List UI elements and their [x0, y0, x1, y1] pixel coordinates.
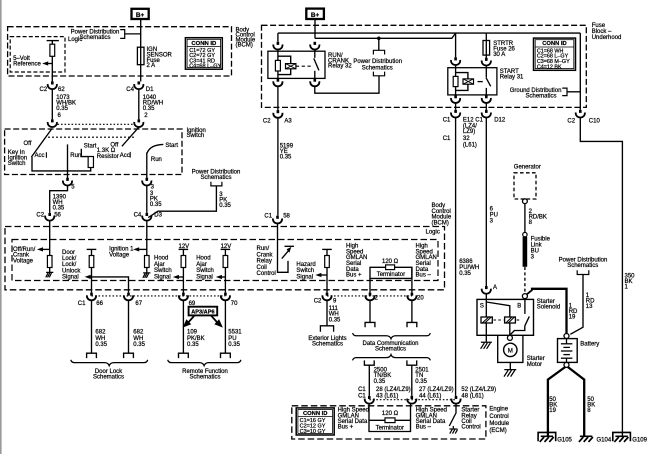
arrow AP3/AP6 to wire 70 — [214, 319, 223, 327]
svg-text:Reference: Reference — [13, 62, 41, 68]
svg-text:C2: C2 — [314, 298, 322, 304]
BCM upper dashed box — [8, 27, 232, 76]
svg-text:E12 C1: E12 C1 — [463, 117, 484, 123]
svg-text:C2: C2 — [567, 118, 575, 124]
relay coil run/crank — [277, 50, 279, 61]
svg-text:Power Distribution: Power Distribution — [353, 59, 402, 65]
svg-text:Switch: Switch — [196, 268, 214, 274]
solenoid switch output to motor junction — [511, 326, 525, 335]
svg-text:D3: D3 — [154, 213, 162, 219]
svg-text:B: B — [517, 304, 521, 310]
dotted connector link ECM row — [369, 399, 456, 401]
Logic lower dashed box — [12, 240, 438, 281]
ground G105 — [538, 432, 556, 441]
brace Remote Function Schematics — [168, 360, 241, 366]
scan edge artifact left — [0, 0, 2, 454]
svg-text:Signal: Signal — [196, 274, 213, 280]
wire resistor to ground — [49, 249, 51, 255]
wire pin 67 branch — [90, 277, 129, 293]
wire B+ to bus — [314, 19, 316, 38]
svg-text:43 (L61): 43 (L61) — [376, 393, 398, 399]
wire 5199 YE 0.35 — [277, 118, 279, 216]
terminal foot bus+ upper — [365, 322, 375, 327]
connector C2 pin 2 — [365, 293, 374, 301]
wire 682 WH 0.35 pin 66 — [91, 300, 93, 353]
connector C4 pin D1 — [134, 81, 143, 89]
ECM starter relay driver switch — [455, 404, 457, 414]
svg-text:C1: C1 — [78, 301, 86, 307]
svg-text:682: 682 — [133, 330, 144, 336]
svg-text:Terminator: Terminator — [377, 272, 405, 278]
arrow Ignition 1 Voltage — [133, 247, 139, 251]
wire C1 58 into logic — [277, 223, 279, 250]
brace data bus continues — [353, 355, 431, 361]
resistor 120 ohm ECM terminator — [385, 418, 395, 423]
energized coil symbol run/crank — [286, 64, 296, 69]
generator output terminal — [523, 199, 528, 204]
svg-text:70: 70 — [231, 301, 238, 307]
ground - ECM driver — [452, 426, 454, 429]
svg-text:19: 19 — [569, 314, 576, 320]
Logic inner dashed box — [10, 37, 65, 72]
svg-text:(ECM): (ECM) — [489, 428, 506, 434]
svg-text:(BCM): (BCM) — [236, 43, 253, 49]
wire 6 PU 3 to starter solenoid — [485, 118, 487, 286]
wire 350 BK 1 to G109 — [580, 118, 622, 437]
wire - resistor to C2 pin 62 — [51, 56, 53, 81]
arrow hood ajar signal right — [216, 275, 222, 279]
arrow AP3/AP6 to wire 69 — [183, 319, 192, 327]
svg-text:Run: Run — [151, 157, 162, 163]
svg-text:Schematics: Schematics — [200, 175, 231, 181]
ground - starter motor — [504, 370, 516, 377]
brace Data Communication Schematics — [353, 333, 431, 339]
relay switch start — [485, 66, 487, 78]
wire ECM bus+ to terminator — [368, 404, 370, 421]
pull-up cap pin 69 — [179, 248, 189, 250]
battery positive terminal — [564, 334, 569, 339]
solenoid coil 1 — [481, 317, 492, 323]
wire 682 WH 0.35 pin 67 — [128, 300, 130, 353]
dotted connector link C1 row — [92, 295, 226, 297]
svg-text:44 (L61): 44 (L61) — [419, 393, 441, 399]
svg-text:S: S — [480, 304, 484, 310]
svg-text:A3: A3 — [284, 118, 292, 124]
svg-text:A: A — [493, 285, 497, 291]
fuse IGN SENSOR 2 A — [137, 47, 144, 64]
svg-text:Signal: Signal — [154, 274, 171, 280]
arrow Off/Run/Crank Voltage — [37, 247, 43, 251]
svg-text:Bus +: Bus + — [346, 273, 362, 279]
brace Door Lock Schematics — [71, 360, 148, 366]
wire 3 PK 0.35 left — [146, 186, 148, 213]
svg-text:C1: C1 — [443, 117, 451, 123]
svg-text:0.35: 0.35 — [56, 106, 68, 112]
svg-text:Fuse: Fuse — [592, 23, 606, 29]
svg-text:Unlock: Unlock — [62, 268, 81, 274]
wire 50 BK 8 to G104 — [568, 367, 584, 436]
connector C1 pin 58 — [273, 216, 282, 224]
wire coil 2 to motor junction — [509, 323, 511, 335]
svg-text:G109: G109 — [632, 437, 647, 443]
bus line upper — [278, 32, 580, 34]
connector ignition switch pin 6 — [48, 119, 57, 127]
svg-text:Battery: Battery — [580, 341, 599, 347]
arrow 5-Volt Reference — [42, 61, 48, 65]
connector ignition switch pin 2 — [134, 119, 143, 127]
wire to BCM ignition 1 input — [146, 221, 148, 250]
resistor - 5 volt reference pull-up — [50, 44, 55, 56]
terminal foot bus- upper — [407, 322, 417, 327]
mechanical link dotted — [48, 136, 134, 138]
svg-text:Control: Control — [461, 425, 480, 431]
svg-text:0.35: 0.35 — [329, 318, 341, 324]
wire S branch to hold-in coil — [486, 302, 510, 317]
svg-text:0.35: 0.35 — [133, 342, 145, 348]
svg-text:Start: Start — [84, 144, 97, 150]
ground - BCM internal left — [46, 272, 54, 277]
svg-text:Lock/: Lock/ — [62, 262, 77, 268]
relay switch run/crank — [314, 50, 316, 58]
wire motor to ground — [509, 362, 511, 369]
ECM dashed box — [292, 406, 486, 439]
wire terminator to C2 pin 20 — [411, 267, 413, 292]
terminal foot pin 67 — [124, 353, 134, 358]
svg-text:Logic: Logic — [68, 37, 82, 43]
solenoid B contact stub — [524, 299, 526, 314]
svg-text:30 A: 30 A — [493, 52, 505, 58]
svg-text:C4=12 BK: C4=12 BK — [537, 64, 562, 70]
svg-text:C2: C2 — [263, 118, 271, 124]
svg-text:Block –: Block – — [592, 29, 612, 35]
terminal foot pin 66 — [87, 353, 97, 358]
svg-text:13: 13 — [586, 304, 593, 310]
svg-text:27 (LZ4/LZ9): 27 (LZ4/LZ9) — [419, 387, 454, 393]
terminal foot bus- lower — [407, 360, 417, 365]
svg-text:M: M — [508, 347, 513, 354]
wire 2501 TN 0.35 to ECM — [411, 365, 413, 396]
svg-text:20: 20 — [417, 296, 424, 302]
connector ECM C1 bus- — [407, 396, 416, 404]
ground G109 — [613, 432, 631, 441]
svg-text:C1: C1 — [443, 136, 451, 142]
battery negative terminal — [564, 362, 569, 367]
svg-text:Run: Run — [70, 153, 81, 159]
svg-text:Hood: Hood — [154, 256, 168, 262]
5-volt supply rail cap — [47, 40, 59, 42]
svg-text:Schematics: Schematics — [375, 347, 406, 353]
off-page bracket exterior lights — [320, 326, 333, 332]
svg-text:Coil: Coil — [257, 265, 267, 271]
wire start relay coil drop — [455, 33, 457, 57]
svg-text:LZ9): LZ9) — [463, 129, 475, 135]
connector starter solenoid pin A — [482, 286, 491, 294]
fusible link BU 3 — [523, 232, 527, 236]
wire to C2 pin 9 — [326, 268, 328, 293]
svg-text:0.35: 0.35 — [95, 342, 107, 348]
svg-text:Schematics: Schematics — [567, 263, 598, 269]
arrow hazard switch signal — [315, 273, 321, 277]
svg-text:AP3/AP6: AP3/AP6 — [191, 309, 214, 315]
svg-text:(BCM): (BCM) — [432, 220, 449, 226]
svg-text:PK/BK: PK/BK — [187, 336, 205, 342]
resistor pin 66 pull-up — [91, 249, 93, 255]
svg-text:C4: C4 — [134, 213, 142, 219]
off-page bracket power distribution (fuse block top) — [378, 38, 380, 50]
off-page bracket battery feed — [577, 270, 589, 274]
svg-text:120 Ω: 120 Ω — [382, 259, 399, 265]
svg-text:0.35: 0.35 — [228, 342, 240, 348]
wire 1390 WH 0.35 — [50, 186, 68, 213]
svg-text:19: 19 — [549, 408, 556, 414]
battery box — [558, 339, 578, 363]
svg-text:C1: C1 — [264, 213, 272, 219]
svg-text:Control: Control — [489, 414, 508, 420]
svg-text:Bus +: Bus + — [338, 425, 354, 431]
svg-text:Relay: Relay — [257, 259, 272, 265]
svg-text:56: 56 — [54, 213, 61, 219]
svg-text:Signal: Signal — [296, 274, 313, 280]
svg-text:(L61): (L61) — [463, 142, 477, 148]
wire coil to fuse block connector C1 — [455, 103, 457, 110]
svg-text:120 Ω: 120 Ω — [382, 411, 399, 417]
connector row C1 BCM bottom — [87, 293, 96, 301]
ground G104 — [580, 435, 592, 437]
connector start relay coil terminal top — [451, 57, 460, 65]
svg-text:Crank: Crank — [257, 252, 274, 258]
wire 2 RD/BK 8 — [524, 204, 526, 233]
svg-text:Bus –: Bus – — [416, 273, 432, 279]
svg-text:52 (LZ4/LZ9): 52 (LZ4/LZ9) — [461, 387, 496, 393]
wire to C1 pin 66 — [91, 268, 93, 293]
connector C2 pin A3 — [273, 110, 282, 118]
svg-text:CONN ID: CONN ID — [542, 41, 566, 47]
solenoid switch blade — [525, 316, 530, 326]
connector run/crank relay switch terminal top — [310, 42, 319, 50]
wire coil 1 to ground — [485, 323, 487, 342]
connector C2 pin 9 — [322, 293, 331, 301]
svg-text:Off: Off — [110, 143, 118, 149]
wire 109 PK/BK 0.35 pin 69 — [182, 300, 184, 353]
svg-text:Schematics: Schematics — [525, 94, 556, 100]
wire switch to fuse block connector D12 — [485, 103, 487, 110]
resistor pin 70 pull-up — [224, 249, 226, 255]
wire 5531 PU 0.35 pin 70 — [224, 300, 226, 353]
svg-text:D12: D12 — [494, 117, 506, 123]
svg-text:Module: Module — [489, 421, 509, 427]
wire 6386 PU/WH 0.35 to ECM — [455, 118, 457, 396]
contact Start pole 2 curve — [147, 144, 164, 153]
svg-text:Signal: Signal — [62, 275, 79, 281]
dotted connector link C2 row — [327, 295, 412, 297]
svg-text:C4: C4 — [126, 87, 134, 93]
svg-text:Relay 32: Relay 32 — [328, 64, 352, 70]
resistor pin 69 pull-up — [182, 249, 184, 255]
svg-text:0.35: 0.35 — [150, 202, 162, 208]
wire 50 BK 19 to G105 — [548, 367, 565, 436]
resistor 120 ohm BCM terminator — [386, 265, 395, 270]
mechanical link dashes solenoid — [494, 319, 504, 321]
battery cell plates — [566, 339, 568, 344]
svg-text:Bus –: Bus – — [416, 425, 432, 431]
svg-text:66: 66 — [96, 301, 103, 307]
wire 1 RD 13 — [570, 275, 583, 335]
connector C2 pin 56 — [45, 213, 54, 221]
svg-text:PU: PU — [228, 336, 236, 342]
B+ supply box (fuse block feed) — [306, 9, 324, 19]
connector pin D12 — [482, 110, 491, 118]
svg-text:58: 58 — [283, 213, 290, 219]
motor junction terminal — [507, 335, 512, 340]
svg-text:Schematics: Schematics — [362, 66, 393, 72]
svg-text:Logic: Logic — [426, 230, 440, 236]
svg-text:Control: Control — [257, 271, 276, 277]
coil parallel loop start — [456, 73, 468, 91]
connector ignition switch pin 5 — [63, 178, 72, 186]
svg-text:C4=68 L–GY: C4=68 L–GY — [189, 64, 221, 70]
wire C2 pin 20 to brace — [411, 300, 413, 322]
terminator box ECM — [369, 420, 411, 431]
svg-text:Relay 31: Relay 31 — [500, 74, 524, 80]
svg-text:C3=10 GY: C3=10 GY — [300, 429, 326, 435]
wire - rail to resistor — [51, 41, 53, 45]
svg-text:Resistor: Resistor — [97, 154, 119, 160]
wire to C1 pin 69 — [182, 268, 184, 293]
svg-text:CONN ID: CONN ID — [191, 41, 216, 47]
svg-text:48 (L61): 48 (L61) — [461, 393, 483, 399]
svg-text:Switch: Switch — [154, 268, 172, 274]
svg-text:28 (LZ4/LZ9): 28 (LZ4/LZ9) — [376, 387, 411, 393]
wire - B+ to IGN SENSOR fuse — [140, 19, 142, 47]
svg-text:0.35: 0.35 — [143, 106, 155, 112]
svg-text:Switch: Switch — [187, 133, 205, 139]
svg-text:Motor: Motor — [527, 362, 542, 368]
svg-text:67: 67 — [135, 301, 142, 307]
relay coil start — [455, 65, 457, 76]
terminal foot bus+ lower — [364, 360, 374, 365]
svg-text:Generator: Generator — [514, 164, 541, 170]
svg-text:Voltage: Voltage — [109, 252, 130, 258]
wire 111 WH 0.35 — [326, 300, 328, 325]
svg-text:C10: C10 — [589, 118, 601, 124]
connector start relay coil terminal bottom — [451, 95, 460, 103]
svg-text:Schematics: Schematics — [79, 35, 110, 41]
run/crank relay driver switch — [285, 245, 295, 247]
wire S terminal to pull-in coil — [485, 294, 487, 317]
connector run/crank relay coil terminal top — [277, 33, 279, 42]
svg-text:Switch: Switch — [296, 268, 314, 274]
svg-text:Schematics: Schematics — [93, 375, 124, 381]
connector ECM C1 starter relay coil control — [451, 396, 460, 404]
svg-text:62: 62 — [58, 87, 65, 93]
svg-text:Run/: Run/ — [257, 246, 270, 252]
svg-text:Ajar: Ajar — [154, 262, 165, 268]
CONN ID table (BCM) — [185, 38, 222, 69]
resistor hazard pull-up — [326, 249, 328, 255]
svg-text:C1: C1 — [358, 393, 366, 399]
svg-text:Hazard: Hazard — [296, 262, 315, 268]
svg-text:Underhood: Underhood — [592, 35, 622, 41]
wire fuse block to C2 C10 — [579, 33, 581, 110]
battery cable solenoid B to battery — [527, 289, 532, 295]
svg-text:0.35: 0.35 — [374, 379, 386, 385]
svg-text:Lock/: Lock/ — [62, 256, 77, 262]
svg-text:32: 32 — [463, 136, 470, 142]
ground - solenoid coil — [481, 342, 492, 349]
svg-text:Solenoid: Solenoid — [537, 305, 560, 311]
svg-text:0.35: 0.35 — [415, 379, 427, 385]
arrow door lock signal to pin 67 — [85, 275, 91, 279]
solenoid B external terminal — [522, 294, 527, 299]
svg-text:B+: B+ — [311, 12, 320, 19]
terminal foot pin 69 — [179, 353, 189, 358]
svg-text:Start: Start — [165, 143, 178, 149]
svg-text:0.35: 0.35 — [219, 203, 231, 209]
ignition switch dashed box — [5, 129, 182, 175]
svg-text:Acc: Acc — [120, 153, 130, 159]
connector C2 pin C10 — [576, 110, 585, 118]
wire C2 pin 2 to brace — [369, 300, 371, 322]
svg-text:B+: B+ — [136, 12, 145, 19]
resistor off/run/crank load — [47, 256, 52, 268]
ground - BCM internal mid — [143, 273, 151, 278]
switch blade pole 2 — [122, 127, 139, 146]
svg-text:Door: Door — [62, 250, 75, 256]
wire to BCM off/run/crank input — [49, 221, 51, 250]
CONN ID table (ECM) — [296, 408, 334, 435]
svg-text:2 A: 2 A — [147, 63, 156, 69]
starter solenoid box — [477, 299, 534, 335]
svg-text:682: 682 — [95, 330, 106, 336]
svg-text:109: 109 — [187, 330, 198, 336]
svg-text:0.35: 0.35 — [187, 342, 199, 348]
svg-text:WH: WH — [133, 336, 143, 342]
terminal foot pin 70 — [221, 353, 231, 358]
switch blade pole 1 — [31, 129, 52, 157]
terminator box BCM — [370, 267, 412, 278]
pull-up cap pin 66 — [87, 248, 97, 250]
svg-text:0.35: 0.35 — [459, 271, 471, 277]
BCM lower dashed box — [5, 227, 445, 290]
svg-text:Acc: Acc — [35, 153, 45, 159]
svg-text:Voltage: Voltage — [13, 259, 34, 265]
B+ supply box (BCM feed) — [132, 9, 149, 19]
RUN/CRANK Relay 32 box — [268, 51, 325, 78]
svg-text:Switch: Switch — [8, 161, 26, 167]
connector start relay switch terminal bottom — [482, 95, 491, 103]
resistor 1.3K ohm — [88, 157, 93, 168]
connector C2 pin 62 — [48, 81, 57, 89]
dotted connector link ignition switch — [58, 123, 134, 125]
connector start relay switch terminal top — [482, 58, 491, 66]
svg-text:5531: 5531 — [228, 330, 242, 336]
svg-text:C1: C1 — [358, 387, 366, 393]
wire relay coil to C2 A3 — [277, 86, 279, 110]
svg-text:CONN ID: CONN ID — [303, 411, 327, 417]
off-page bracket to Power Distribution Schematics — [120, 30, 141, 39]
wire fusible link to solenoid B (dashed) — [524, 267, 526, 294]
svg-text:Terminator: Terminator — [376, 426, 404, 432]
svg-text:C2: C2 — [36, 213, 44, 219]
svg-text:Off: Off — [24, 141, 32, 147]
wire ECM bus- to terminator — [410, 404, 412, 421]
wire terminator to C2 pin 2 — [369, 278, 371, 292]
svg-text:Ajar: Ajar — [196, 262, 207, 268]
arrow hood ajar signal left — [173, 275, 179, 279]
starter motor housing — [498, 335, 523, 362]
generator dashed box — [514, 173, 536, 199]
connector C1 E12 pin — [451, 110, 460, 118]
